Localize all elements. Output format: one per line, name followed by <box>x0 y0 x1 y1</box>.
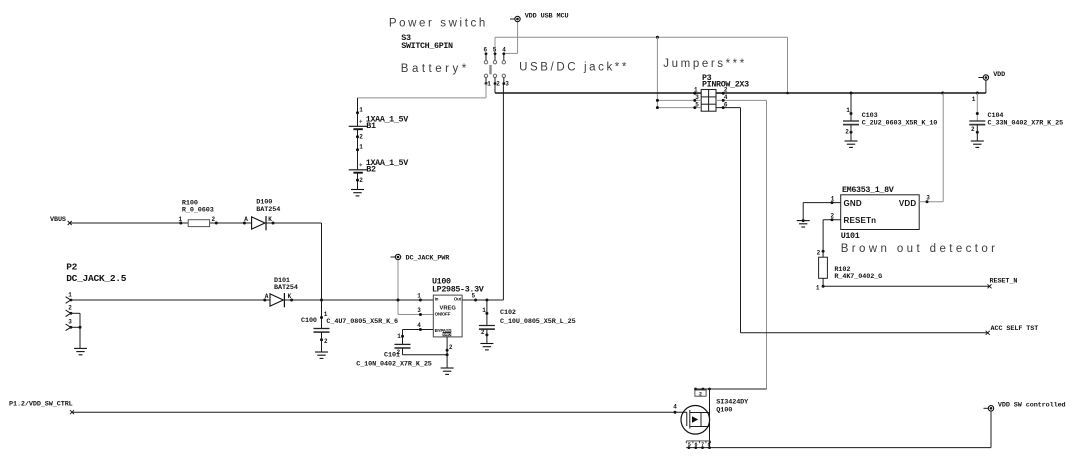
svg-text:6: 6 <box>724 101 728 108</box>
svg-text:1: 1 <box>482 307 486 314</box>
svg-text:5: 5 <box>695 101 699 108</box>
svg-text:2: 2 <box>496 80 500 87</box>
svg-text:1: 1 <box>359 144 363 151</box>
svg-text:2: 2 <box>831 213 835 220</box>
svg-text:Jumpers***: Jumpers*** <box>663 58 747 70</box>
svg-text:1: 1 <box>846 107 850 114</box>
svg-text:P1.2/VDD_SW_CTRL: P1.2/VDD_SW_CTRL <box>9 401 73 409</box>
svg-text:K: K <box>268 216 272 223</box>
svg-text:In: In <box>435 296 439 301</box>
svg-text:2: 2 <box>724 86 728 93</box>
svg-text:5: 5 <box>472 292 476 299</box>
svg-text:GND: GND <box>443 333 451 337</box>
svg-text:4: 4 <box>502 47 506 54</box>
svg-text:4: 4 <box>417 322 421 329</box>
svg-text:P2: P2 <box>66 262 77 273</box>
svg-text:2: 2 <box>359 134 363 141</box>
svg-text:VDD: VDD <box>993 71 1005 79</box>
svg-text:4: 4 <box>673 403 677 410</box>
svg-text:Power switch: Power switch <box>389 18 488 30</box>
svg-text:B2: B2 <box>366 165 376 175</box>
svg-text:1: 1 <box>417 292 421 299</box>
svg-text:C_10N_0402_X7R_K_25: C_10N_0402_X7R_K_25 <box>356 360 432 368</box>
svg-text:2: 2 <box>359 177 363 184</box>
svg-text:3: 3 <box>417 307 421 314</box>
svg-text:VDD: VDD <box>899 199 917 208</box>
svg-text:2: 2 <box>212 216 216 223</box>
svg-text:LP2985-3.3V: LP2985-3.3V <box>432 285 485 295</box>
svg-text:4: 4 <box>724 94 728 101</box>
svg-text:GND: GND <box>844 199 862 208</box>
svg-text:VBUS: VBUS <box>50 216 66 224</box>
svg-text:1: 1 <box>831 196 835 203</box>
svg-text:5: 5 <box>493 47 497 54</box>
svg-text:Out: Out <box>454 296 462 301</box>
svg-text:C102: C102 <box>500 309 516 317</box>
svg-text:5: 5 <box>688 442 691 448</box>
svg-text:2: 2 <box>324 338 328 345</box>
svg-text:ON/OFF: ON/OFF <box>435 312 451 317</box>
svg-text:3: 3 <box>695 94 699 101</box>
svg-text:Q100: Q100 <box>716 406 732 414</box>
svg-text:A: A <box>244 216 248 223</box>
svg-text:BAT254: BAT254 <box>256 206 280 214</box>
svg-text:A: A <box>265 293 269 300</box>
svg-text:Battery*: Battery* <box>401 63 470 75</box>
svg-text:1: 1 <box>179 216 183 223</box>
svg-text:1: 1 <box>972 96 976 103</box>
svg-text:2: 2 <box>971 126 975 133</box>
svg-text:1: 1 <box>68 291 72 298</box>
svg-text:B1: B1 <box>366 121 376 131</box>
svg-text:2: 2 <box>68 305 72 312</box>
svg-text:RESETn: RESETn <box>844 216 877 225</box>
svg-text:Brown out detector: Brown out detector <box>841 243 999 255</box>
svg-text:DC_JACK_PWR: DC_JACK_PWR <box>406 255 451 263</box>
svg-text:2: 2 <box>699 392 702 398</box>
svg-text:VDD SW controlled: VDD SW controlled <box>998 402 1066 410</box>
svg-text:2: 2 <box>817 249 821 256</box>
svg-text:2: 2 <box>845 128 849 135</box>
svg-text:8: 8 <box>708 442 711 448</box>
svg-text:3: 3 <box>926 195 930 202</box>
svg-text:6: 6 <box>695 442 698 448</box>
svg-text:BAT254: BAT254 <box>274 284 298 292</box>
svg-text:VDD USB MCU: VDD USB MCU <box>525 13 569 21</box>
svg-text:C_10U_0805_X5R_L_25: C_10U_0805_X5R_L_25 <box>500 318 576 326</box>
svg-text:2: 2 <box>481 329 485 336</box>
svg-text:SWITCH_6PIN: SWITCH_6PIN <box>401 41 453 51</box>
svg-text:2: 2 <box>449 344 453 351</box>
svg-text:DC_JACK_2.5: DC_JACK_2.5 <box>66 273 127 284</box>
svg-text:1: 1 <box>694 86 698 93</box>
svg-text:7: 7 <box>701 442 704 448</box>
svg-text:1: 1 <box>487 80 491 87</box>
svg-text:ACC SELF TST: ACC SELF TST <box>991 325 1039 333</box>
svg-text:3: 3 <box>505 80 509 87</box>
svg-text:C_2U2_0603_X5R_K_10: C_2U2_0603_X5R_K_10 <box>862 119 938 127</box>
svg-text:EM6353_1_8V: EM6353_1_8V <box>842 185 895 195</box>
svg-text:K: K <box>288 293 292 300</box>
svg-text:C_4U7_0805_X5R_K_6: C_4U7_0805_X5R_K_6 <box>326 318 398 326</box>
svg-text:RESET_N: RESET_N <box>990 277 1018 285</box>
svg-text:R_0_0603: R_0_0603 <box>182 207 214 215</box>
svg-text:C101: C101 <box>384 352 400 360</box>
svg-text:USB/DC jack**: USB/DC jack** <box>519 62 629 74</box>
svg-text:U101: U101 <box>841 231 860 241</box>
svg-text:1: 1 <box>397 333 401 340</box>
svg-text:1: 1 <box>324 311 328 318</box>
svg-text:VREG: VREG <box>439 305 456 311</box>
svg-text:C100: C100 <box>301 317 317 325</box>
svg-text:R_4K7_0402_G: R_4K7_0402_G <box>834 273 882 281</box>
svg-text:6: 6 <box>484 47 488 54</box>
svg-text:1: 1 <box>359 107 363 114</box>
svg-text:1: 1 <box>816 284 820 291</box>
svg-text:3: 3 <box>68 319 72 326</box>
svg-text:C_33N_0402_X7R_K_25: C_33N_0402_X7R_K_25 <box>988 119 1064 127</box>
